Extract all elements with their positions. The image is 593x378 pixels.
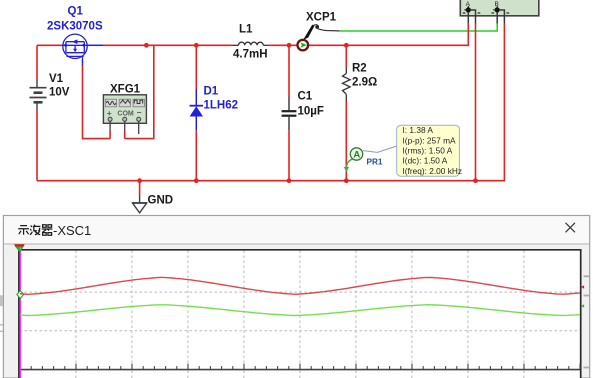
function generator XFG1 (103, 95, 146, 134)
tooltip PR1 readings (397, 125, 462, 176)
wire: R2 to ground rail (345, 101, 347, 181)
channel marker diamond (17, 291, 24, 299)
background window fragments left edge (0, 295, 3, 331)
wire: C1 to ground rail (288, 130, 290, 180)
ground GND (132, 195, 147, 213)
svg-text:D1: D1 (204, 86, 219, 98)
current probe XCP1 (298, 25, 341, 51)
node: junction dot R2 bottom (344, 178, 349, 183)
capacitor C1 (282, 97, 297, 131)
trigger markers (14, 244, 24, 246)
svg-text:I(dc): 1.50 A: I(dc): 1.50 A (403, 156, 448, 166)
svg-text:V1: V1 (49, 73, 64, 85)
cursor line magenta (19, 251, 21, 378)
diode D1 (190, 89, 203, 131)
svg-text:L1: L1 (239, 24, 253, 36)
resistor R2 (343, 68, 351, 102)
waveform channel A red (20, 277, 580, 294)
transistor Q1 MOSFET (63, 34, 87, 59)
svg-text:10µF: 10µF (298, 106, 324, 118)
wire: R2 branch top (345, 45, 347, 67)
wire: ground rail (37, 180, 476, 182)
svg-text:COM: COM (117, 110, 133, 117)
channel level markers right margin (581, 285, 584, 289)
plot border (19, 250, 581, 378)
wire: source net down to XFG1 COM branch (125, 45, 154, 138)
wire: Q1 source to L1 (103, 44, 233, 46)
wire: C1 branch top (288, 45, 290, 96)
node: junction dot D1 top (194, 43, 199, 48)
node: junction dot scope A minus (473, 178, 478, 183)
Q1 source pin stub right (87, 44, 103, 46)
oscilloscope XSC1 instrument box (460, 0, 539, 16)
svg-text:10V: 10V (49, 87, 70, 99)
svg-text:2SK3070S: 2SK3070S (47, 21, 103, 33)
svg-text:+: + (107, 108, 112, 118)
wire: L1 to XCP1 (269, 44, 467, 46)
node: junction dot C1 bottom (287, 178, 292, 183)
svg-text:B: B (495, 1, 499, 8)
probe PR1 (344, 148, 363, 172)
node: junction dot C1 top (287, 43, 292, 48)
node: junction dot D1 bottom (194, 178, 199, 183)
svg-text:C1: C1 (298, 91, 313, 103)
svg-text:XFG1: XFG1 (110, 84, 141, 96)
grid vertical dashed lines (76, 251, 524, 378)
node: junction dot R2 top (344, 43, 349, 48)
svg-text:−: − (137, 108, 142, 118)
svg-text:I(freq): 2.00 kHz: I(freq): 2.00 kHz (403, 166, 462, 176)
svg-text:-XSC1: -XSC1 (53, 223, 91, 238)
oscilloscope window XSC1 (3, 216, 589, 378)
svg-text:I(p-p): 257 mA: I(p-p): 257 mA (403, 135, 456, 145)
wire: COM pin riser (124, 131, 126, 139)
wire: D1 to ground rail (195, 131, 197, 181)
waveform channel B green (20, 305, 580, 316)
close button (566, 223, 576, 233)
wire: Q1 gate down (83, 66, 111, 139)
node: junction dot source net (144, 43, 149, 48)
wire: scope A plus down to rail (466, 24, 468, 46)
pin B pad (491, 6, 509, 24)
window title XSC1 (18, 225, 52, 236)
svg-text:1LH62: 1LH62 (204, 100, 239, 112)
svg-text:I: 1.38 A: I: 1.38 A (403, 125, 434, 135)
wire: scope B minus down and ground rail right corner (476, 24, 505, 181)
wire: V1 bottom to ground rail (36, 109, 38, 181)
time axis with ticks (20, 364, 581, 370)
wire: top rail V1 to Q1 drain (37, 44, 63, 46)
svg-text:PR1: PR1 (367, 158, 383, 167)
node: junction dot GND (137, 178, 142, 183)
svg-text:4.7mH: 4.7mH (233, 49, 268, 61)
inductor L1 (233, 42, 270, 45)
wire: GND stub (139, 181, 141, 195)
wire: XFG1 plus pin riser (109, 131, 111, 139)
svg-text:R2: R2 (352, 63, 367, 75)
pin A pad (463, 6, 481, 24)
svg-text:XCP1: XCP1 (306, 12, 337, 24)
Q1 gate pin stub (82, 59, 84, 66)
background window fragments right margin (584, 276, 590, 367)
svg-text:GND: GND (148, 195, 174, 207)
wire: V1 branch top (36, 45, 38, 79)
svg-text:I(rms): 1.50 A: I(rms): 1.50 A (403, 146, 453, 156)
svg-text:Q1: Q1 (68, 6, 84, 18)
wire: D1 branch top (195, 45, 197, 89)
battery V1 (30, 80, 47, 110)
svg-text:A: A (353, 150, 360, 161)
callout line to tooltip (363, 146, 397, 152)
wire: scope A minus to ground rail (475, 24, 477, 181)
svg-text:2.9Ω: 2.9Ω (352, 77, 377, 89)
scope plot area (19, 249, 581, 378)
grid horizontal dashed lines (20, 292, 581, 331)
wire: green XCP1 output to scope B (339, 24, 497, 32)
